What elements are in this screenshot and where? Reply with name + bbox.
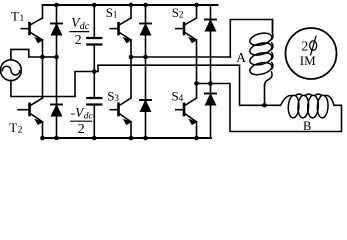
node S4 emitter at rail: [194, 136, 199, 141]
transistor S1: [110, 18, 131, 43]
svg-text:T: T: [11, 9, 19, 24]
wire diode column leg T: [56, 5, 58, 138]
node capacitor midpoint: [92, 69, 97, 74]
inductor winding B: [281, 94, 335, 118]
wire S1 collector to top rail: [130, 5, 132, 18]
node leg T midpoint: [40, 55, 45, 60]
wire bottom DC rail: [43, 137, 212, 139]
wire S4 emitter to bottom rail: [196, 122, 198, 138]
svg-text:2: 2: [75, 33, 82, 48]
node S2 collector at rail: [194, 3, 199, 8]
label S1: [106, 5, 118, 21]
label B: [303, 119, 311, 133]
node D8 cathode at phase B line: [208, 81, 213, 86]
node D1 cathode at top rail: [54, 3, 59, 8]
svg-text:1: 1: [113, 10, 118, 20]
diode D8 (across S4): [205, 94, 216, 106]
capacitor C1 top: [87, 5, 101, 72]
svg-text:A: A: [236, 50, 246, 65]
svg-text:dc: dc: [84, 111, 94, 121]
diode D5 (across S1): [140, 24, 151, 36]
wire T1 emitter / leg vertical down to T2 collector: [42, 40, 44, 98]
node leg2 midpoint (phase B): [194, 81, 199, 86]
label S3: [107, 89, 119, 105]
svg-text:1: 1: [20, 14, 25, 24]
diode D1 (across T1): [51, 24, 62, 36]
motor M1 2-phase IM: [286, 28, 337, 79]
svg-text:B: B: [303, 119, 311, 133]
wire AC top terminal to leg midpoint: [11, 49, 43, 59]
wire top DC rail: [43, 4, 218, 6]
transistor S4: [176, 98, 197, 124]
label -Vdc/2: [71, 105, 94, 137]
inductor winding A: [249, 20, 273, 87]
label Vdc/2: [70, 15, 90, 48]
svg-text:T: T: [9, 120, 17, 135]
wire AC bottom terminal to capacitor midpoint: [11, 72, 94, 97]
svg-text:dc: dc: [80, 21, 90, 32]
svg-text:2: 2: [179, 10, 184, 20]
transistor T2: [18, 98, 43, 124]
node C1 top at rail: [92, 3, 97, 8]
node D1 anode at midpoint: [54, 55, 59, 60]
svg-text:3: 3: [114, 94, 119, 104]
wire phase B line to winding B right end: [197, 84, 342, 132]
transistor S2: [176, 18, 197, 43]
svg-text:4: 4: [179, 94, 184, 104]
node S3 emitter at rail: [129, 136, 134, 141]
wire phase A output line: [131, 56, 230, 58]
svg-text:2: 2: [78, 122, 85, 137]
node D2 anode at bottom rail: [54, 136, 59, 141]
transistor T1: [21, 18, 42, 43]
node D5 anode at phase A line: [143, 55, 148, 60]
label S2: [172, 5, 184, 21]
node D5 cathode at rail: [143, 3, 148, 8]
capacitor C2 bottom: [87, 72, 101, 139]
transistor S3: [110, 98, 131, 124]
svg-text:2: 2: [18, 126, 23, 136]
wire T1 collector to top rail: [42, 5, 44, 18]
wire S4 collector from midpoint: [196, 84, 198, 99]
diode D6 (across S3): [140, 100, 151, 112]
wire diode column leg 2: [210, 5, 212, 138]
node D6 anode at rail: [143, 136, 148, 141]
svg-text:IM: IM: [300, 53, 316, 68]
label S4: [172, 89, 184, 105]
diode D2 (across T2): [51, 105, 62, 117]
wire common line from capacitor midpoint: [94, 65, 280, 105]
node C2 bottom at rail: [92, 136, 97, 141]
label T1: [11, 9, 25, 25]
wire S2 emitter down to leg2 midpoint: [196, 40, 198, 84]
wire midpoint line to diode column: [43, 56, 57, 58]
wire S3 emitter to bottom rail: [130, 122, 132, 138]
wire S2 collector to top rail: [196, 5, 198, 18]
wire winding A bottom to common node: [264, 85, 266, 105]
node common (motor neutral): [262, 103, 267, 108]
wire T2 emitter to bottom rail: [42, 122, 44, 138]
wire S1 emitter to midpoint: [130, 40, 132, 57]
node S1 collector at rail: [129, 3, 134, 8]
wire S3 collector from midpoint: [130, 57, 132, 98]
node T2 emitter at rail: [40, 136, 45, 141]
wire phase A riser to winding A top: [230, 20, 272, 58]
diode D7 (across S2): [205, 20, 216, 32]
label T2: [9, 120, 22, 136]
AC source V1: [1, 60, 22, 81]
node leg1 midpoint (phase A): [129, 55, 134, 60]
wire diode column leg 1: [145, 5, 147, 138]
